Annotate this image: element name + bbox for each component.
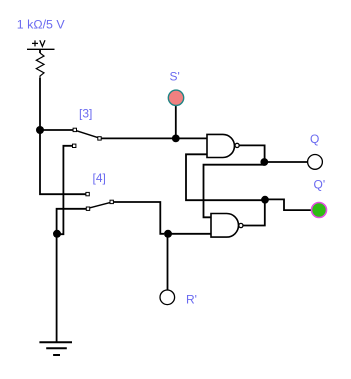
wire node Q cross-couple to gate U2 input A: [204, 165, 265, 218]
svg-text:[3]: [3]: [79, 107, 92, 121]
node A junction dot: [36, 126, 44, 134]
probe R' (white): [160, 290, 175, 305]
wire stub below +V: [39, 49, 41, 53]
wire node B down to ground: [56, 234, 58, 342]
svg-text:Q: Q: [310, 132, 319, 146]
svg-text:R': R': [186, 293, 197, 307]
wire node Qbar to probe Q': [265, 199, 311, 210]
wire +V rail down to switch4: [40, 130, 86, 194]
node Q junction dot: [260, 158, 268, 166]
wire node R to gate U2 input B: [168, 233, 211, 235]
wire resistor to node A: [39, 78, 41, 130]
node Qbar junction dot: [261, 196, 269, 204]
node R junction dot: [164, 230, 172, 238]
switch J3 lever: [77, 131, 98, 138]
svg-text:Q': Q': [314, 177, 326, 191]
power +V bar: [27, 48, 55, 50]
switch J4 lever: [90, 203, 110, 208]
wire switch3 pole to gate U1 input A: [101, 137, 207, 139]
switch J3 top throw contact: [73, 128, 76, 131]
wire switch4 pole to node R: [114, 202, 164, 234]
svg-text:S': S': [170, 70, 180, 84]
nand gate U1 body: [207, 134, 234, 157]
node S junction dot: [172, 135, 180, 143]
nand gate U2 body: [211, 214, 239, 238]
svg-text:[4]: [4]: [93, 171, 106, 185]
wire node R down to probe R': [167, 234, 169, 290]
wire U1 bottom input cross-couple from node Qbar: [186, 154, 265, 200]
probe Q (white): [308, 155, 323, 170]
ground: [39, 342, 72, 355]
nand gate U2 bubble: [239, 223, 243, 227]
power +V label: [32, 40, 45, 46]
wire switch3 bottom throw leftward: [57, 146, 73, 234]
wire node A to switch3 top throw: [40, 129, 73, 131]
wire S' probe drop: [175, 106, 177, 138]
probe Q' (green): [312, 203, 327, 218]
switch J4 bottom throw contact: [86, 207, 89, 210]
switch J3 bottom throw contact: [73, 144, 76, 147]
resistor R 1k zigzag: [36, 53, 44, 78]
wire U2 output to node Qbar: [243, 200, 265, 226]
node B junction dot: [53, 230, 61, 238]
switch J4 top throw contact: [86, 192, 89, 195]
switch J4 pole contact: [110, 200, 113, 203]
wire switch4 bottom throw to ground rail: [57, 209, 87, 234]
wire U1 output to node Q: [239, 145, 307, 162]
switch J3 pole contact: [98, 137, 101, 140]
probe S' (red): [168, 90, 183, 105]
nand gate U1 bubble: [235, 143, 239, 147]
svg-text:1 kΩ/5 V: 1 kΩ/5 V: [17, 18, 66, 32]
